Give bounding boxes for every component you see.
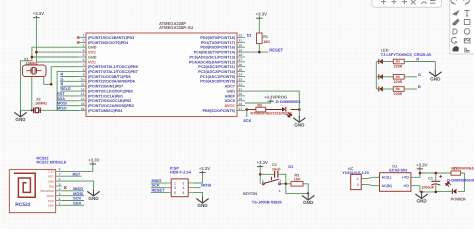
LED LED1 element R xyxy=(379,59,383,64)
svg-text:8: 8 xyxy=(83,68,85,72)
wire RC522 MISO xyxy=(62,190,84,192)
svg-text:R: R xyxy=(61,72,64,76)
svg-text:RC522: RC522 xyxy=(15,202,31,208)
junction GND rail/symbol xyxy=(420,191,423,194)
svg-text:16: 16 xyxy=(81,107,85,111)
svg-text:(PCINT0/CLKO/ICP1)PB0: (PCINT0/CLKO/ICP1)PB0 xyxy=(88,89,133,93)
wire XTAL1 (PB6) to crystal xyxy=(51,67,78,85)
wire AC pin2 to AC(N) xyxy=(361,184,379,185)
svg-text:TJ-L5FYTXHMCS_CRGB-A5: TJ-L5FYTXHMCS_CRGB-A5 xyxy=(381,53,431,57)
junction SCK branch xyxy=(246,108,249,111)
wire R3 to GND xyxy=(303,184,308,194)
wire LED B anode to resistor xyxy=(383,88,394,90)
svg-text:24: 24 xyxy=(239,73,243,77)
wire +3.3V to R1 xyxy=(258,18,260,33)
svg-text:7: 7 xyxy=(59,173,61,177)
junction +3.3V/VCC xyxy=(35,51,38,54)
svg-text:8: 8 xyxy=(59,168,61,172)
svg-text:EC03-S03: EC03-S03 xyxy=(389,168,408,173)
svg-text:GND: GND xyxy=(88,55,97,59)
svg-text:30: 30 xyxy=(239,43,243,47)
wire ICSP RESET xyxy=(151,191,166,193)
IC right pin names xyxy=(189,36,236,113)
wire GND pin to GND symbol xyxy=(245,91,299,116)
svg-text:R: R xyxy=(416,58,419,62)
wire switch to R3 xyxy=(281,183,291,185)
junction XTAL1 node xyxy=(50,83,53,86)
svg-text:22: 22 xyxy=(239,82,243,86)
unconnected mark IRQ pin xyxy=(64,186,67,189)
LED emission arrows xyxy=(445,181,452,188)
wire R5 out net G xyxy=(404,76,417,78)
svg-text:15: 15 xyxy=(81,102,85,106)
crystal X1 16MHz (HC49 outline) xyxy=(23,65,47,77)
svg-text:RT0805FRE&#8230;: RT0805FRE&#8230; xyxy=(451,166,474,170)
wire second switch pole to GND rail xyxy=(286,184,308,194)
wire +3.3V down to button xyxy=(259,167,261,184)
svg-text:5: 5 xyxy=(59,182,61,186)
wire LED D2 to GND rail xyxy=(290,109,299,111)
svg-text:16MHz: 16MHz xyxy=(26,62,38,66)
wire C2 to switch node / net D1 xyxy=(278,174,286,184)
svg-text:18: 18 xyxy=(239,102,243,106)
svg-text:MOSI: MOSI xyxy=(47,194,55,198)
svg-text:10K: 10K xyxy=(294,177,301,181)
junction LED/GND rail xyxy=(298,108,301,111)
wire GND pin 5 xyxy=(32,56,78,58)
resistor R7 (0805) power LED xyxy=(451,171,461,175)
+3.3V supply (button) xyxy=(257,160,268,167)
wire RC522 SCK xyxy=(62,200,84,202)
svg-text:D-G0805080&#8230;: D-G0805080&#8230; xyxy=(447,178,474,182)
svg-text:29: 29 xyxy=(239,48,243,52)
svg-text:+3.3V: +3.3V xyxy=(256,12,267,17)
wire PB5 to R2 (highlighted) xyxy=(245,109,256,111)
RC522 antenna coil icon xyxy=(14,173,35,197)
svg-text:(PCINT19/OC2B/INT1)PD3: (PCINT19/OC2B/INT1)PD3 xyxy=(88,36,134,40)
resistor R1 10K (vertical box) xyxy=(257,33,263,44)
svg-text:(PCINT7/XTAL2/TOSC2)PB7: (PCINT7/XTAL2/TOSC2)PB7 xyxy=(88,70,138,74)
svg-text:+3.3V: +3.3V xyxy=(88,157,99,162)
svg-text:+VO: +VO xyxy=(402,176,409,180)
wire RC522 3.3V pin to +3.3V xyxy=(62,164,93,171)
svg-text:28: 28 xyxy=(239,53,243,57)
svg-text:R1: R1 xyxy=(263,35,268,39)
wire +3.3V rail down to VCC pins xyxy=(35,18,37,62)
svg-text:4: 4 xyxy=(183,186,185,190)
svg-text:D1: D1 xyxy=(288,165,293,169)
wire -VO to GND rail xyxy=(411,186,436,192)
wire RGB LED common rail xyxy=(375,62,377,90)
node D1 stub xyxy=(285,169,287,174)
wire VCC pin 6 xyxy=(36,61,78,63)
svg-text:12: 12 xyxy=(81,87,85,91)
wire RC522 GND pin xyxy=(62,181,94,189)
junction RESET node xyxy=(258,51,261,54)
svg-text:4: 4 xyxy=(59,187,61,191)
svg-text:9: 9 xyxy=(83,73,85,77)
LED D3 POWER (pointing left) xyxy=(452,189,456,194)
wire net MISO xyxy=(57,110,79,112)
svg-text:(PCINT20/XCK/T0)PD4: (PCINT20/XCK/T0)PD4 xyxy=(88,41,129,45)
junction X1 leg / bottom net xyxy=(31,109,33,111)
wire X1 right leg to XTAL1 node xyxy=(44,77,52,85)
svg-text:SDA: SDA xyxy=(57,97,65,101)
junction button/C2 xyxy=(259,173,262,176)
svg-text:+3.3V: +3.3V xyxy=(416,162,427,167)
pushbutton S1 BOTON TS-1000B xyxy=(262,177,280,185)
svg-text:3: 3 xyxy=(279,189,281,193)
svg-text:VCC: VCC xyxy=(88,51,96,55)
svg-text:10uF: 10uF xyxy=(272,167,282,171)
svg-text:ADC7: ADC7 xyxy=(225,85,235,89)
svg-text:PROMISO: PROMISO xyxy=(40,189,54,193)
wire SCK stub down xyxy=(246,110,248,118)
svg-text:27: 27 xyxy=(239,58,243,62)
svg-text:2: 2 xyxy=(183,181,185,185)
svg-text:PD0(RXD/PCINT16): PD0(RXD/PCINT16) xyxy=(200,46,235,50)
resistor R4 220R xyxy=(393,59,404,64)
svg-text:PD1(TXD/PCINT17): PD1(TXD/PCINT17) xyxy=(201,41,236,45)
resistor R6 220R xyxy=(393,87,404,92)
unconnected pin marks on PD3/PD4 xyxy=(77,36,79,43)
IC right pin stubs with pin numbers xyxy=(237,38,245,111)
svg-text:RELE: RELE xyxy=(61,87,72,91)
svg-text:D1: D1 xyxy=(247,33,252,37)
svg-text:G: G xyxy=(61,77,64,81)
svg-text:+3.3V: +3.3V xyxy=(33,11,44,16)
svg-text:GND: GND xyxy=(303,200,314,205)
svg-text:(PCINT1/OC1A)PB1: (PCINT1/OC1A)PB1 xyxy=(88,94,123,98)
svg-text:AC(L): AC(L) xyxy=(382,176,393,180)
svg-text:PC0(ADC0/PCINT8): PC0(ADC0/PCINT8) xyxy=(200,80,236,84)
wire bottom crystal net xyxy=(21,109,58,111)
svg-text:RC522 MODULE: RC522 MODULE xyxy=(36,160,66,165)
wire VCC pin 4 xyxy=(36,51,78,53)
svg-text:PC4(ADC4/SDA/PCINT12): PC4(ADC4/SDA/PCINT12) xyxy=(189,60,236,64)
junction C1/GND rail xyxy=(435,191,438,194)
svg-text:ATMEGA328P-AU: ATMEGA328P-AU xyxy=(159,25,193,30)
svg-text:(PCINT6/XTAL1/TOSC1)PB6: (PCINT6/XTAL1/TOSC1)PB6 xyxy=(88,65,138,69)
+3.3VPROG supply xyxy=(264,95,287,102)
svg-text:-VO: -VO xyxy=(403,184,410,188)
svg-text:1: 1 xyxy=(83,34,85,38)
svg-text:220R: 220R xyxy=(394,92,403,96)
svg-text:GND: GND xyxy=(197,203,208,208)
svg-text:MOSI: MOSI xyxy=(201,182,211,187)
svg-text:R6: R6 xyxy=(396,87,400,91)
wire to LED G cathode xyxy=(376,76,378,78)
svg-text:R2: R2 xyxy=(258,103,263,107)
ICSP pin stubs and numbers xyxy=(166,183,194,192)
svg-text:17: 17 xyxy=(239,107,243,111)
+3.3V supply (left rail) xyxy=(33,11,44,18)
resistor R5 220R xyxy=(393,75,404,80)
svg-text:GND: GND xyxy=(416,199,427,204)
wire C1 bottom to GND rail xyxy=(435,184,437,192)
IC left pin names xyxy=(88,36,138,113)
svg-text:1000uF: 1000uF xyxy=(421,185,434,189)
svg-text:RT0805FRE0722&#8230;: RT0805FRE0722&#8230; xyxy=(251,111,293,115)
svg-text:B: B xyxy=(61,82,64,86)
svg-text:VCC: VCC xyxy=(88,60,96,64)
svg-text:31: 31 xyxy=(239,39,243,43)
svg-text:AC(N): AC(N) xyxy=(382,184,393,188)
svg-text:20: 20 xyxy=(239,92,243,96)
svg-text:(PCINT21/OC0B/T1)PD5: (PCINT21/OC0B/T1)PD5 xyxy=(88,75,131,79)
svg-text:10: 10 xyxy=(81,78,85,82)
junction switch/R3/D1 xyxy=(285,183,288,186)
svg-text:6: 6 xyxy=(59,177,61,181)
wire R7 down to power LED xyxy=(458,173,464,191)
wire to C2 xyxy=(260,173,274,175)
svg-text:5: 5 xyxy=(83,53,85,57)
svg-text:R5: R5 xyxy=(396,75,400,79)
wire ICSP MISO xyxy=(151,182,166,184)
svg-text:GND: GND xyxy=(294,122,305,127)
svg-text:3: 3 xyxy=(83,43,85,47)
svg-text:MISO: MISO xyxy=(57,107,67,111)
svg-text:MOSI: MOSI xyxy=(57,102,67,106)
svg-text:+3.3V: +3.3V xyxy=(257,160,268,165)
svg-text:14: 14 xyxy=(81,97,85,101)
wire power LED to GND rail xyxy=(436,190,453,192)
wire RC522 MOSI xyxy=(62,195,84,197)
resistor R2 (0805 220R) xyxy=(256,107,266,112)
wire R1 to RESET net xyxy=(258,44,260,53)
right toolbar panel xyxy=(450,0,474,54)
svg-text:RESET: RESET xyxy=(269,48,283,53)
wire net B xyxy=(60,85,78,87)
ground (RGB LED) xyxy=(429,70,441,77)
svg-text:1: 1 xyxy=(59,202,61,206)
svg-text:GND: GND xyxy=(88,46,97,50)
svg-text:11: 11 xyxy=(81,82,85,86)
+3.3V supply (RC522) xyxy=(88,157,99,164)
resistor R3 10K (horizontal box) xyxy=(291,182,303,187)
svg-text:TS-1000B-03826: TS-1000B-03826 xyxy=(252,200,283,205)
svg-text:RST: RST xyxy=(48,175,54,179)
wire net G xyxy=(60,80,78,82)
svg-text:220R: 220R xyxy=(394,80,403,84)
wire R6 out net B xyxy=(404,88,417,90)
svg-text:(PCINT3/OC2A/MOSI)PB3: (PCINT3/OC2A/MOSI)PB3 xyxy=(88,104,134,108)
svg-text:B: B xyxy=(418,85,421,89)
+3.3V supply (ICSP) xyxy=(199,166,210,173)
wire LED R anode to resistor xyxy=(383,61,394,63)
svg-text:1: 1 xyxy=(262,179,264,183)
svg-text:PD2(INT0/PCINT18): PD2(INT0/PCINT18) xyxy=(200,36,236,40)
svg-text:1: 1 xyxy=(174,181,176,185)
svg-text:C1: C1 xyxy=(428,176,433,180)
wire R2 to LED D2 xyxy=(266,109,282,111)
ground (left rail) xyxy=(14,110,26,117)
svg-text:PC5(ADC5/SCL/PCINT13): PC5(ADC5/SCL/PCINT13) xyxy=(189,55,235,59)
RC522 module body xyxy=(9,170,55,213)
wire C1 top xyxy=(435,173,437,181)
svg-text:PC1(ADC1/PCINT9): PC1(ADC1/PCINT9) xyxy=(200,75,236,79)
svg-text:26: 26 xyxy=(239,63,243,67)
svg-text:5: 5 xyxy=(174,191,176,195)
svg-text:6: 6 xyxy=(183,191,185,195)
wire +VO to 3.3V rail xyxy=(411,173,451,177)
svg-text:10K: 10K xyxy=(263,40,270,44)
svg-text:19: 19 xyxy=(239,97,243,101)
wire R4 out net R xyxy=(404,61,435,63)
svg-text:PC6(RESET#/PCINT14): PC6(RESET#/PCINT14) xyxy=(194,51,236,55)
junction +3.3V rail xyxy=(419,172,422,175)
svg-text:13: 13 xyxy=(81,92,85,96)
svg-text:2: 2 xyxy=(357,183,359,187)
wire RESET to PC6 pin xyxy=(245,51,268,53)
svg-text:GND: GND xyxy=(48,179,54,183)
AC connector body xyxy=(351,174,362,189)
svg-text:25: 25 xyxy=(239,68,243,72)
svg-text:RESET: RESET xyxy=(152,187,166,192)
LED LED1 element B xyxy=(379,86,383,91)
capacitor C2 10uF xyxy=(275,171,278,178)
svg-text:PC3(ADC3/PCINT11): PC3(ADC3/PCINT11) xyxy=(198,65,235,69)
svg-text:21: 21 xyxy=(239,87,243,91)
svg-text:23: 23 xyxy=(239,78,243,82)
wire RC522 SDA xyxy=(62,204,84,206)
ground (RC522) xyxy=(87,189,99,196)
svg-text:GND: GND xyxy=(227,89,236,93)
svg-text:3.3V: 3.3V xyxy=(48,170,54,174)
ground (ICSP) xyxy=(196,196,208,203)
svg-text:1: 1 xyxy=(357,177,359,181)
wire R-net down to GND xyxy=(434,62,436,70)
svg-text:(PCINT22/OC0A/AIN0)PD6: (PCINT22/OC0A/AIN0)PD6 xyxy=(88,80,135,84)
svg-text:3: 3 xyxy=(59,192,61,196)
svg-text:2: 2 xyxy=(279,179,281,183)
capacitor C1 1000uF (polarized) xyxy=(431,175,442,185)
svg-text:220R: 220R xyxy=(394,65,403,69)
junction C1/+3.3V rail xyxy=(435,172,438,175)
svg-text:POWER: POWER xyxy=(451,196,466,201)
wire X1 left leg down xyxy=(31,77,33,111)
wire RC522 RST xyxy=(62,175,82,177)
ground (power module) xyxy=(415,192,427,199)
svg-text:SCK: SCK xyxy=(48,199,55,203)
svg-text:IRQ: IRQ xyxy=(49,184,55,188)
LED D2 (SCK indicator) xyxy=(282,107,286,112)
svg-text:3: 3 xyxy=(174,186,176,190)
wire AC pin1 to AC(L) xyxy=(361,177,379,178)
wire net R xyxy=(60,76,78,78)
wire supply stem xyxy=(419,169,421,173)
wire rail joint xyxy=(435,190,437,193)
svg-text:PC2(ADC2/PCINT10): PC2(ADC2/PCINT10) xyxy=(198,70,236,74)
svg-text:4: 4 xyxy=(83,48,85,52)
wire XTAL2 (PB7) down xyxy=(57,72,78,111)
svg-text:BOTON: BOTON xyxy=(243,191,257,196)
wire ICSP SCK xyxy=(151,187,166,189)
svg-text:32: 32 xyxy=(239,34,243,38)
+3.3V supply (reset pull-up) xyxy=(256,12,267,19)
svg-text:GND: GND xyxy=(15,117,26,122)
LED LED1 element G xyxy=(379,74,383,79)
wire LED G anode to resistor xyxy=(383,76,394,78)
svg-text:RST: RST xyxy=(73,171,81,176)
svg-text:PB5(SCK/PCINT5): PB5(SCK/PCINT5) xyxy=(203,109,236,113)
svg-text:(PCINT23/AIN1)PD7: (PCINT23/AIN1)PD7 xyxy=(88,85,123,89)
wire to LED B cathode xyxy=(376,88,378,90)
svg-text:HDR-F-2.54: HDR-F-2.54 xyxy=(170,170,192,175)
ground (button) xyxy=(302,193,314,200)
wire net SDA xyxy=(57,100,79,102)
svg-text:6: 6 xyxy=(83,58,85,62)
svg-text:(PCINT4/MISO)PB4: (PCINT4/MISO)PB4 xyxy=(88,109,123,113)
svg-text:16MHz: 16MHz xyxy=(35,101,47,105)
IC U? ATMEGA328P-AU (TQFP32) body xyxy=(86,33,237,117)
wire GND rail from GND pins xyxy=(21,47,79,110)
wire ICSP MOSI xyxy=(194,187,201,189)
wire ICSP pin6 to GND xyxy=(194,192,203,196)
svg-text:RST: RST xyxy=(57,92,65,96)
svg-text:AREF: AREF xyxy=(225,94,236,98)
crystal X2 16MHz xyxy=(34,108,41,113)
svg-text:+3.3VPROG: +3.3VPROG xyxy=(264,95,287,100)
top toolbar panel xyxy=(372,0,442,7)
power module U1 body xyxy=(380,173,411,192)
wire ICSP pin2 to +3.3V xyxy=(194,173,203,183)
svg-text:ADC6: ADC6 xyxy=(225,99,235,103)
junction GND rail xyxy=(31,56,34,59)
svg-text:(PCINT2/SS#/OC1B)PB2: (PCINT2/SS#/OC1B)PB2 xyxy=(88,99,131,103)
svg-text:GND: GND xyxy=(88,196,99,201)
svg-text:SCK: SCK xyxy=(243,118,251,123)
ground (IC GND pin) xyxy=(293,116,305,123)
wire net RST xyxy=(57,95,79,97)
svg-text:2: 2 xyxy=(59,197,61,201)
wire net MOSI xyxy=(57,105,79,107)
svg-text:7: 7 xyxy=(83,63,85,67)
svg-text:SDA: SDA xyxy=(73,201,81,206)
wire AVCC to +3.3VPROG xyxy=(245,101,271,103)
svg-text:GND: GND xyxy=(430,77,441,82)
svg-text:AVCC: AVCC xyxy=(225,104,236,108)
junction R3/GND xyxy=(307,192,309,194)
IC left pin stubs with pin numbers xyxy=(78,38,86,111)
wire to LED R cathode xyxy=(376,61,378,63)
LED emission arrows xyxy=(286,111,293,118)
svg-text:2: 2 xyxy=(83,39,85,43)
svg-text:+3.3V: +3.3V xyxy=(199,166,210,171)
svg-text:G: G xyxy=(418,73,421,77)
wire net RELE xyxy=(60,90,78,92)
svg-text:R4: R4 xyxy=(396,60,400,64)
+3.3V supply (power module out) xyxy=(416,162,427,169)
svg-text:SDA: SDA xyxy=(48,204,55,208)
RC522 pin stubs and numbers xyxy=(56,171,62,205)
ICSP header body xyxy=(171,179,188,197)
svg-text:D-G08050BD1: D-G08050BD1 xyxy=(276,100,301,104)
